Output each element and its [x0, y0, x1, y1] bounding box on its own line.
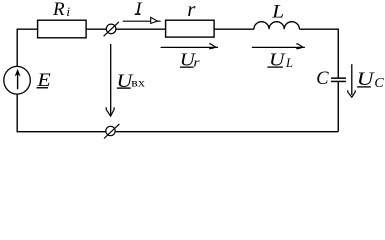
svg-text:L: L [285, 56, 293, 70]
svg-text:r: r [193, 56, 200, 70]
svg-text:i: i [66, 4, 70, 19]
svg-text:C: C [316, 69, 329, 89]
svg-text:r: r [187, 0, 196, 21]
svg-text:вх: вх [131, 76, 145, 89]
svg-text:C: C [374, 76, 384, 91]
svg-text:L: L [271, 1, 284, 22]
svg-text:R: R [52, 0, 65, 20]
